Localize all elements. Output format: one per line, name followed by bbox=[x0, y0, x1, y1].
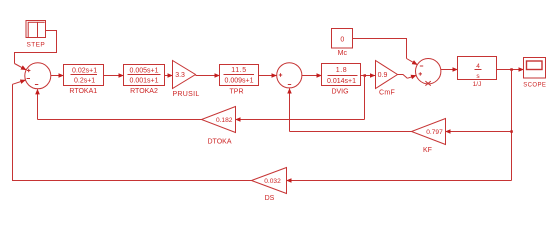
svg-text:DVIG: DVIG bbox=[331, 89, 348, 96]
wire TPR to sum S2 bbox=[259, 75, 277, 77]
svg-text:0: 0 bbox=[340, 36, 344, 43]
constant block Mc bbox=[332, 29, 353, 49]
sign - at S2 bottom input bbox=[288, 84, 291, 86]
junction dot at KF branch bbox=[510, 130, 513, 133]
svg-text:0.014s+1: 0.014s+1 bbox=[327, 78, 356, 85]
sign + at S2 left input bbox=[279, 73, 282, 76]
block RTOKA1 bbox=[64, 65, 104, 86]
svg-text:RTOKA1: RTOKA1 bbox=[69, 88, 97, 95]
svg-text:0.182: 0.182 bbox=[216, 117, 233, 124]
wire S2 to DVIG bbox=[302, 75, 322, 77]
svg-text:STEP: STEP bbox=[27, 41, 46, 48]
wire DTOKA to S1 bottom bbox=[38, 89, 202, 119]
svg-text:0.02s+1: 0.02s+1 bbox=[72, 67, 97, 74]
wire STEP to sum S1 bbox=[15, 31, 57, 70]
sink block SCOPE bbox=[524, 58, 546, 79]
svg-text:0.797: 0.797 bbox=[426, 129, 443, 136]
svg-text:1.8: 1.8 bbox=[336, 67, 348, 74]
block RTOKA2 bbox=[124, 65, 165, 86]
gain DS bbox=[252, 168, 287, 194]
svg-text:0.032: 0.032 bbox=[264, 178, 281, 185]
svg-text:1/J: 1/J bbox=[473, 81, 482, 88]
sum junction S1 bbox=[25, 63, 51, 89]
junction dot at scope branch bbox=[510, 68, 513, 71]
wire 1/J to SCOPE bbox=[497, 69, 524, 71]
sign + at S3 lower-left input bbox=[419, 72, 422, 75]
block 1/J bbox=[458, 57, 497, 80]
sign - at S1 bottom input bbox=[35, 84, 38, 86]
wire PRUSIL to TPR bbox=[196, 75, 220, 77]
sign - at S1 left input bbox=[27, 78, 30, 80]
svg-text:11.5: 11.5 bbox=[231, 67, 247, 74]
value 0.005s+1 / 0.001s+1 bbox=[128, 67, 161, 84]
svg-text:CmF: CmF bbox=[379, 89, 395, 96]
gain CmF bbox=[376, 61, 398, 89]
svg-text:0.9: 0.9 bbox=[378, 72, 388, 79]
svg-text:0.005s+1: 0.005s+1 bbox=[130, 67, 159, 74]
gain PRUSIL bbox=[173, 61, 196, 89]
wire Mc to sum S3 bbox=[353, 39, 418, 65]
wire DVIG to CmF bbox=[361, 75, 376, 77]
svg-text:3.3: 3.3 bbox=[175, 72, 185, 79]
gain KF bbox=[412, 119, 446, 145]
svg-text:SCOPE: SCOPE bbox=[523, 82, 546, 88]
junction dot at DVIG output tap bbox=[364, 74, 367, 77]
value 11.5 / 0.009s+1 bbox=[224, 67, 255, 84]
wire RTOKA1 to RTOKA2 bbox=[104, 75, 124, 77]
wire KF to S2 bottom bbox=[290, 89, 412, 132]
svg-text:DS: DS bbox=[265, 195, 275, 202]
value 1.8 / 0.014s+1 bbox=[327, 67, 358, 85]
wire feedback trunk down from scope branch bbox=[511, 70, 513, 181]
svg-text:s: s bbox=[476, 73, 480, 80]
svg-text:TPR: TPR bbox=[230, 88, 244, 95]
svg-text:DTOKA: DTOKA bbox=[208, 139, 232, 146]
wire trunk to KF bbox=[446, 131, 512, 133]
svg-text:PRUSIL: PRUSIL bbox=[172, 91, 199, 98]
wire S1 to RTOKA1 bbox=[51, 75, 64, 77]
svg-text:4: 4 bbox=[476, 63, 480, 70]
svg-text:KF: KF bbox=[423, 147, 432, 154]
sum junction S2 bbox=[277, 63, 302, 88]
wire S3 to 1/J bbox=[441, 69, 458, 71]
x mark at S3 bottom port bbox=[425, 81, 430, 85]
wire CmF to sum S3 bbox=[398, 75, 417, 79]
sum junction S3 bbox=[416, 58, 441, 83]
wire DS to S1 left bbox=[13, 80, 252, 181]
svg-text:Mc: Mc bbox=[338, 50, 348, 57]
svg-text:0.2s+1: 0.2s+1 bbox=[74, 78, 95, 85]
sign - at S3 upper-left input bbox=[420, 65, 423, 67]
wire trunk to DS bbox=[287, 180, 512, 182]
block TPR bbox=[220, 65, 259, 86]
svg-text:RTOKA2: RTOKA2 bbox=[130, 88, 158, 95]
value 4/s bbox=[475, 63, 482, 80]
source block STEP bbox=[26, 21, 46, 38]
sign + at S1 upper-left input bbox=[27, 69, 30, 72]
value 0.02s+1 / 0.2s+1 bbox=[71, 67, 98, 84]
wire DVIG tap down to DTOKA bbox=[236, 76, 365, 120]
svg-text:0.001s+1: 0.001s+1 bbox=[130, 78, 159, 85]
gain DTOKA bbox=[202, 107, 236, 133]
svg-text:0.009s+1: 0.009s+1 bbox=[225, 78, 254, 85]
wire RTOKA2 to PRUSIL bbox=[165, 75, 173, 77]
block DVIG bbox=[322, 64, 361, 86]
